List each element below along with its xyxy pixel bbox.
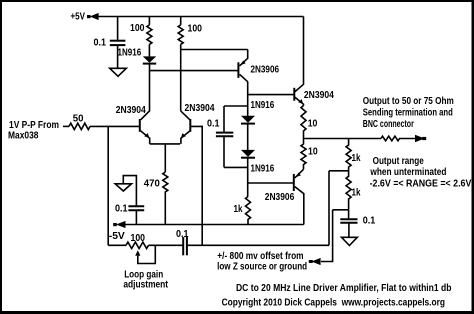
svg-text:1N916: 1N916 xyxy=(118,47,142,58)
diode D3 1N916 xyxy=(241,150,255,197)
transistor Q4 2N3904 (output NPN) xyxy=(294,17,303,106)
wire: emitter bus to R4 xyxy=(164,144,166,172)
svg-text:DC to 20 MHz Line Driver Ampli: DC to 20 MHz Line Driver Amplifier, Flat… xyxy=(236,283,452,294)
svg-text:100: 100 xyxy=(131,233,146,244)
svg-text:2N3906: 2N3906 xyxy=(251,65,280,76)
+5V arrow xyxy=(87,13,99,20)
svg-text:50: 50 xyxy=(73,114,84,125)
svg-text:-5V: -5V xyxy=(109,231,125,242)
wire: offset tap xyxy=(333,209,349,211)
resistor R6 (sending termination) xyxy=(381,136,416,141)
wire: divider tap to feedback xyxy=(329,170,349,172)
offset arrow xyxy=(309,258,321,265)
svg-text:100: 100 xyxy=(188,24,203,35)
svg-text:0.1: 0.1 xyxy=(94,37,107,48)
svg-text:Sending termination and: Sending termination and xyxy=(363,108,453,119)
transistor Q2 2N3906 (top PNP) xyxy=(238,50,247,82)
svg-text:0.1: 0.1 xyxy=(207,119,220,130)
svg-text:10: 10 xyxy=(308,118,318,129)
ground (bottom right) xyxy=(342,237,358,245)
svg-text:1k: 1k xyxy=(352,188,361,199)
svg-text:1V P-P From: 1V P-P From xyxy=(9,120,59,131)
resistor R1 50 (input) xyxy=(63,123,140,129)
ground (top left) xyxy=(110,68,127,76)
svg-text:2N3906: 2N3906 xyxy=(265,192,295,203)
wire: feedback column xyxy=(328,171,330,246)
diode D2 1N916 xyxy=(241,116,255,150)
capacitor C5 0.1 (output shunt) xyxy=(340,210,357,238)
wire: R3 node to Q2 emitter xyxy=(181,49,248,51)
wire: D1 cathode to Q2 base xyxy=(150,70,239,72)
output arrow xyxy=(415,135,426,143)
wire: Q2 collector node to Q4 base xyxy=(248,94,295,96)
svg-text:Output range: Output range xyxy=(373,156,425,167)
ground (mid left, -5V decoupling) xyxy=(115,176,136,206)
wire: D1 cathode down to Q1 collector xyxy=(141,64,150,120)
wire: input node down to loop-gain pot xyxy=(107,126,109,245)
wire: -5V rail xyxy=(125,224,304,226)
svg-text:+/- 800 mv offset from: +/- 800 mv offset from xyxy=(217,251,304,262)
transistor Q3 2N3904 (diff pair right) xyxy=(181,119,190,144)
resistor R10 1k (divider top) xyxy=(346,139,351,171)
svg-text:Copyright 2010 Dick Cappels w: Copyright 2010 Dick Cappels www.projects… xyxy=(222,297,445,308)
svg-text:Output to 50 or 75 Ohm: Output to 50 or 75 Ohm xyxy=(363,96,454,107)
svg-text:BNC connector: BNC connector xyxy=(363,119,414,130)
svg-text:+5V: +5V xyxy=(71,11,86,22)
wire: bias node to Q5 base xyxy=(248,182,294,184)
wire: Q2 collector column down xyxy=(247,82,249,116)
potentiometer R5 100 (loop gain) xyxy=(108,242,183,248)
svg-text:470: 470 xyxy=(144,178,161,189)
capacitor C1 0.1 xyxy=(110,41,126,69)
transistor Q5 2N3906 (output PNP) xyxy=(294,169,304,224)
resistor R11 1k (divider bottom) xyxy=(346,171,351,210)
resistor R7 1k (bias) xyxy=(246,197,251,225)
resistor R8 10 (top) xyxy=(301,106,306,139)
resistor R3 100 (right) xyxy=(178,17,183,111)
potentiometer R5 wiper xyxy=(135,245,155,263)
resistor R2 100 (left) xyxy=(147,17,152,57)
svg-text:1N916: 1N916 xyxy=(251,163,275,174)
capacitor C3 0.1 (on -5V) xyxy=(128,206,144,224)
svg-text:1k: 1k xyxy=(352,153,361,164)
svg-text:2N3904: 2N3904 xyxy=(304,90,334,101)
wire: +5V top rail xyxy=(98,16,304,18)
svg-text:-2.6V =< RANGE =< 2.6V: -2.6V =< RANGE =< 2.6V xyxy=(370,179,472,190)
svg-text:0.1: 0.1 xyxy=(115,204,128,215)
svg-text:1k: 1k xyxy=(234,204,243,215)
wire: offset annotation line xyxy=(321,210,333,262)
svg-text:10: 10 xyxy=(308,147,318,158)
svg-text:2N3904: 2N3904 xyxy=(116,105,146,116)
wire: output node xyxy=(304,138,382,140)
svg-text:0.1: 0.1 xyxy=(176,229,189,240)
resistor R9 10 (bottom) xyxy=(301,139,306,170)
transistor Q1 2N3904 (diff pair left) xyxy=(140,119,150,144)
svg-text:Max038: Max038 xyxy=(8,131,39,142)
capacitor C4 0.1 (feedback series) xyxy=(183,237,329,255)
svg-text:1N916: 1N916 xyxy=(251,100,275,111)
diode D1 1N916 xyxy=(143,56,156,63)
wire: Q3 base to feedback column xyxy=(190,126,202,245)
svg-text:low Z source or ground: low Z source or ground xyxy=(217,262,307,273)
wire: +5V decoupling drop xyxy=(117,17,119,41)
-5V arrow xyxy=(113,221,125,228)
svg-text:2N3904: 2N3904 xyxy=(185,103,215,114)
svg-text:adjustment: adjustment xyxy=(123,279,168,290)
svg-text:when unterminated: when unterminated xyxy=(370,167,447,178)
capacitor C2 0.1 (bias bypass) xyxy=(216,106,248,167)
wire: R3 node to Q3 collector xyxy=(181,111,190,120)
resistor R4 470 xyxy=(163,172,168,225)
svg-text:100: 100 xyxy=(130,23,145,34)
wire: emitter bus xyxy=(150,143,180,145)
svg-text:0.1: 0.1 xyxy=(363,216,376,227)
